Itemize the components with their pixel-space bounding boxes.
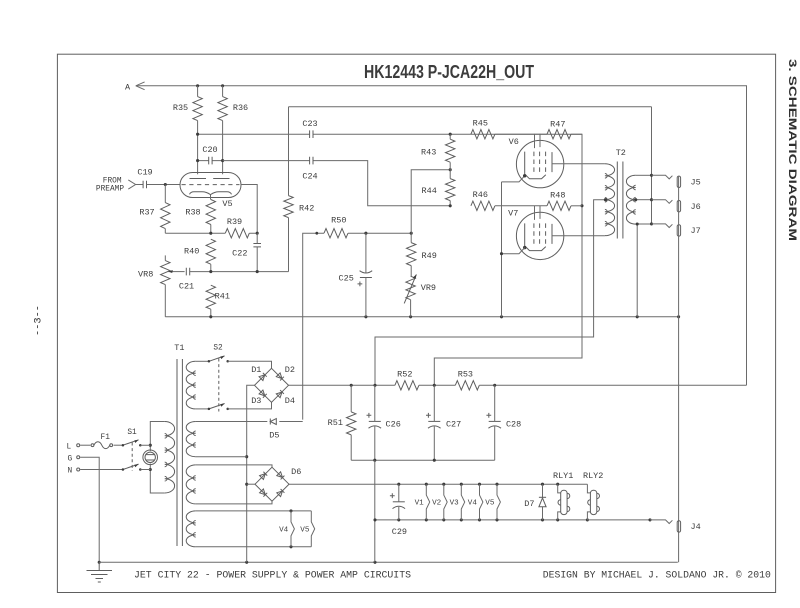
wire R36 lead [222,86,224,174]
junction [226,408,229,411]
junction [541,518,544,521]
svg-text:C27: C27 [446,420,461,430]
svg-text:R44: R44 [422,186,437,196]
wire C27 leads [433,385,435,460]
wire R37 leads [164,185,166,234]
svg-text:FROM: FROM [103,178,122,186]
svg-text:V4: V4 [468,499,478,507]
wire T2 secondary mid tap [636,199,652,201]
wire N to S1 [80,469,123,471]
diode D5 [270,419,276,425]
junction [650,222,653,225]
wire heater rect winding top lead [196,465,272,467]
wire C24 net (R36 plate to R44/R46) [223,161,451,206]
resistor R40 [206,239,215,264]
junction [478,483,481,486]
svg-text:V5: V5 [300,527,310,535]
svg-text:R35: R35 [173,103,188,113]
transformer T2 primary winding [605,164,615,236]
svg-text:JET CITY 22 - POWER SUPPLY & P: JET CITY 22 - POWER SUPPLY & POWER AMP C… [134,570,411,581]
wire bridge negative drop [247,385,255,562]
svg-text:R39: R39 [227,217,242,227]
svg-text:C26: C26 [386,420,401,430]
junction [449,204,452,207]
wire R45 to V6 grid [495,133,547,135]
junction [373,459,376,462]
svg-text:D3: D3 [251,396,261,406]
wire heater DC positive rail [289,483,587,485]
wire output tap ladder [651,107,653,224]
wire C26 node down to heater DC bus [374,460,376,562]
tube V7 (power pentode) [516,206,563,260]
wire R41 bottom lead [210,309,212,317]
resistor R39 [225,229,249,238]
svg-text:R53: R53 [458,369,473,379]
svg-text:C29: C29 [392,527,407,537]
resistor R50 [324,229,348,238]
junction [425,483,428,486]
svg-text:R50: R50 [331,216,346,226]
svg-text:R52: R52 [397,369,412,379]
svg-text:C23: C23 [302,119,317,129]
junction [410,232,413,235]
junction [677,315,680,318]
wire G to ground [80,457,99,562]
junction [209,270,212,273]
wire D5 to riser [279,421,302,423]
wire bias winding top lead [196,421,268,423]
wire C28 leads [494,385,496,460]
wire V6 plate to T2 [552,163,605,165]
svg-text:R40: R40 [184,247,199,257]
junction [523,174,526,177]
svg-text:R48: R48 [550,191,565,201]
wire T1 primary bottom lead [150,464,164,494]
wire T1 primary top lead [150,422,164,452]
transformer T1 HV secondary winding [186,361,196,409]
resistor R53 [455,381,479,390]
wire VR8 top stub [164,255,166,260]
wire ground bus (power section) [99,561,678,563]
wire heater winding top rail [196,510,312,512]
svg-text:N: N [68,468,73,476]
jack J5 [652,175,673,179]
capacitor C20 [209,157,212,165]
wire screen feed vertical [434,134,582,385]
wire R43/R44 leads [449,134,451,206]
junction [373,384,376,387]
junction [478,518,481,521]
resistor R45 [471,130,495,139]
svg-text:F1: F1 [101,434,111,442]
transformer T1 core [177,359,182,546]
svg-text:R46: R46 [473,190,488,200]
junction [149,468,152,471]
junction [221,159,224,162]
junction [650,198,653,201]
wire R48 right lead [571,205,582,207]
jack J6 [652,200,673,204]
wire C26 leads [374,385,376,460]
wire T2 center tap to B+ node [375,200,605,386]
wire speaker jack sleeve line [678,177,680,563]
resistor R37 [161,203,170,229]
svg-text:T1: T1 [174,343,184,353]
wire cathode bus [165,232,257,234]
svg-text:A: A [125,82,131,92]
wire B+ rail [289,384,747,386]
svg-text:T2: T2 [616,148,626,158]
capacitor C25 [360,277,372,279]
wire NFB node riser [411,170,450,234]
wire D5 bias riser to R50 [303,233,324,419]
junction [442,483,445,486]
junction [226,360,229,363]
svg-text:V6: V6 [509,137,519,147]
transformer T2 secondary winding [626,175,635,224]
capacitor C24 [310,157,313,165]
svg-text:PREAMP: PREAMP [96,186,124,194]
junction [397,483,400,486]
svg-text:D1: D1 [251,365,261,375]
junction [648,518,651,521]
junction [493,384,496,387]
drawing frame border [57,54,775,592]
capacitor C21 [186,268,189,276]
transformer T1 bias winding [186,422,196,457]
junction [495,518,498,521]
wire HV winding top lead [196,360,209,362]
junction [541,483,544,486]
svg-text:RLY2: RLY2 [583,471,603,481]
wire C22 leads [256,233,258,271]
junction [397,518,400,521]
resistor R43 [446,139,455,162]
junction [289,509,292,512]
junction [636,315,639,318]
junction [315,232,318,235]
heater V1 (DC) [426,484,429,520]
svg-text:C20: C20 [202,145,217,155]
junction [500,315,503,318]
resistor R38 [206,200,215,225]
svg-text:C21: C21 [179,282,194,292]
junction [495,483,498,486]
svg-text:G: G [68,455,73,463]
capacitor C28 [489,420,501,422]
potentiometer VR8 [161,261,170,285]
junction [209,232,212,235]
input arrow [128,180,135,189]
wire R42 leads [288,107,290,272]
transformer T2 core [617,162,623,239]
transformer T1 rectifier heater winding [186,465,196,504]
resistor R49 [407,243,416,266]
wire V5 cathode lead [210,195,212,234]
resistor R41 [206,285,215,309]
svg-text:V1: V1 [415,499,425,507]
wire S2 to bridge [228,361,272,409]
wire NFB line from R42 to output taps [289,106,652,108]
junction [350,384,353,387]
wire heater DC negative rail [375,519,588,521]
capacitor C29 [393,501,405,503]
junction [289,545,292,548]
junction [460,518,463,521]
junction [196,159,199,162]
svg-text:V3: V3 [450,499,460,507]
svg-text:C25: C25 [339,273,354,283]
heater V4 (DC) [480,484,483,520]
junction [409,315,412,318]
wire node A rail [136,86,747,386]
junction [139,468,142,471]
wire fuse to S1 [114,444,123,446]
svg-text:R49: R49 [422,251,437,261]
junction [139,444,142,447]
junction [449,168,452,171]
svg-text:S2: S2 [213,345,223,353]
junction [245,561,248,564]
wire V5 grid2 to R39/C22 [241,185,257,234]
svg-text:R41: R41 [215,292,230,302]
bridge rectifier D6 [255,467,289,501]
junction [650,174,653,177]
capacitor C23 [310,130,313,138]
svg-text:R36: R36 [233,103,248,113]
capacitor C22 [253,244,261,247]
svg-text:D5: D5 [269,430,279,440]
svg-text:3. SCHEMATIC DIAGRAM: 3. SCHEMATIC DIAGRAM [786,59,798,241]
svg-text:D4: D4 [285,396,295,406]
resistor R35 [193,97,202,121]
svg-text:R37: R37 [139,207,154,217]
transformer T1 heater winding [186,511,196,547]
potentiometer VR9 [406,276,415,300]
junction [433,384,436,387]
heater V2 (DC) [444,484,447,520]
svg-text:R42: R42 [299,203,314,213]
svg-text:C24: C24 [302,172,317,182]
resistor R51 [347,412,356,435]
node A arrow [136,82,145,90]
svg-text:V5: V5 [485,499,495,507]
svg-text:HK12443 P-JCA22H_OUT: HK12443 P-JCA22H_OUT [364,61,535,82]
wire C19 to V5 grid [147,184,181,186]
svg-text:RLY1: RLY1 [553,471,573,481]
capacitor C19 [143,181,146,189]
wire S1 to primary [140,445,150,469]
junction [634,198,637,201]
wire relay rail to J4 [587,519,651,521]
tube V6 (power pentode) [516,134,563,188]
diode D1 [259,373,267,381]
junction [449,133,452,136]
junction [122,468,125,471]
junction [149,444,152,447]
svg-text:D6: D6 [291,467,301,477]
jack J4 [650,520,672,524]
resistor R46 [471,201,495,210]
bridge rectifier D1-D4 [255,368,289,402]
wire R51 leads [350,385,352,460]
tube V5 (12AX7 phase inverter) [180,173,241,198]
wire L to fuse [80,444,90,446]
resistor R36 [218,97,227,121]
junction [208,408,211,411]
junction [556,483,559,486]
svg-text:VR8: VR8 [138,270,153,280]
wire C20 net [198,160,223,162]
junction [556,518,559,521]
transformer T1 primary winding [165,422,175,494]
junction [256,232,259,235]
wire V7 plate to T2 [552,235,605,237]
svg-text:L: L [67,443,72,451]
heater V4 (AC) [291,511,294,547]
svg-text:--3--: --3-- [34,305,45,336]
svg-text:V4: V4 [279,527,289,535]
svg-text:V5: V5 [222,199,232,209]
junction [196,84,199,87]
wire ground bus (amp section) [165,316,678,318]
wire C23 net (R35 plate to R43/R45) [198,133,582,135]
wire input to C19 [136,184,144,186]
diode D4 [276,390,284,398]
svg-text:C22: C22 [232,249,247,259]
resistor R47 [547,130,571,139]
junction [221,84,224,87]
junction [122,444,125,447]
wire C29 leads [398,484,400,520]
junction [442,518,445,521]
resistor R44 [446,179,455,201]
junction [580,204,583,207]
wire heater rect winding bottom lead [196,501,272,504]
heater V5 (DC) [497,484,500,520]
svg-text:V7: V7 [508,209,518,219]
wire R49-VR9 link [410,233,413,317]
junction [208,360,211,363]
resistor R52 [395,381,419,390]
svg-text:D7: D7 [524,499,534,509]
svg-text:R51: R51 [328,418,343,428]
heater V5 (AC) [311,511,314,547]
junction [500,252,503,255]
wire D6 negative stub [247,483,255,485]
wire HV winding bottom lead [196,408,209,410]
diode D7 [542,484,544,520]
capacitor C27 [428,420,440,422]
svg-text:C28: C28 [506,420,521,430]
pilot lamp [143,450,158,465]
junction [373,518,376,521]
wire C25 top lead [365,233,367,273]
jack J7 [652,224,673,228]
junction [196,133,199,136]
svg-text:J4: J4 [691,522,701,532]
junction [373,561,376,564]
wire VR8 wiper to C21 [175,271,185,273]
junction [245,455,248,458]
heater V3 (DC) [461,484,464,520]
svg-text:D2: D2 [285,365,295,375]
svg-text:VR9: VR9 [421,283,436,293]
wire filter cap ground bus [351,459,495,461]
junction [209,315,212,318]
wire bias winding bottom lead [196,456,247,458]
junction [425,518,428,521]
junction [98,561,101,564]
resistor R42 [284,196,293,218]
resistor R48 [547,201,571,210]
wire C21 to R40/R41 node [190,271,289,273]
junction [364,232,367,235]
svg-text:S1: S1 [127,429,137,437]
junction [164,183,167,186]
wire T2 secondary top tap [636,174,652,176]
wire VR8 bottom lead [164,285,166,317]
junction [460,483,463,486]
diode D2 [276,373,284,381]
junction [245,483,248,486]
junction [636,222,639,225]
svg-text:J5: J5 [691,178,701,188]
junction [586,518,589,521]
wire heater winding bottom rail [196,546,312,548]
junction [604,198,607,201]
capacitor C26 [369,420,381,422]
junction [256,270,259,273]
svg-text:V2: V2 [432,499,442,507]
junction [364,315,367,318]
svg-text:DESIGN BY MICHAEL J. SOLDANO J: DESIGN BY MICHAEL J. SOLDANO JR. © 2010 [543,570,771,581]
wire R50 to R49 node [348,232,411,234]
wire T2 secondary bottom lead [636,224,652,317]
svg-text:R43: R43 [421,148,436,158]
svg-text:R47: R47 [550,119,565,129]
svg-text:J6: J6 [691,202,701,212]
wire C25 bottom lead [365,278,367,317]
wire R40 lead [210,264,212,271]
diode D3 [259,390,267,398]
svg-text:R45: R45 [473,118,488,128]
svg-text:J7: J7 [691,226,701,236]
svg-text:C19: C19 [137,168,152,178]
wire R35 lead [197,86,199,174]
svg-text:R38: R38 [185,207,200,217]
junction [433,459,436,462]
wire V6 cathode down [501,182,503,317]
wire R46 to V7 grid [495,205,547,207]
